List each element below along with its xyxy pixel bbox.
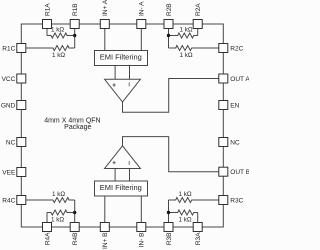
resistor R4b 1k (R4C to R4B node): [26, 198, 75, 203]
pin R4C: [17, 196, 26, 205]
pin R4B: [70, 223, 79, 232]
svg-text:R1A: R1A: [44, 3, 51, 16]
svg-text:IN- A: IN- A: [139, 1, 146, 16]
wire amp B - to EMI B: [129, 169, 131, 182]
svg-text:VCC: VCC: [2, 76, 16, 83]
svg-text:OUT B: OUT B: [230, 169, 249, 176]
svg-text:NC: NC: [6, 139, 16, 146]
svg-text:IN+ B: IN+ B: [102, 233, 109, 249]
wire EMI A to amp +: [114, 66, 116, 80]
svg-text:R3C: R3C: [230, 197, 243, 204]
plus sign amp A: [113, 83, 116, 86]
package outline: [21, 24, 223, 227]
minus sign amp B: [128, 161, 130, 165]
pin R3A: [193, 223, 202, 232]
svg-text:VEE: VEE: [2, 169, 16, 176]
resistor R2b 1k (R2C to R2B node): [169, 46, 219, 51]
op-amp B (triangle): [105, 146, 141, 169]
pin R2A: [193, 20, 202, 29]
svg-text:R2B: R2B: [166, 3, 173, 16]
wire R1B stub: [74, 29, 76, 49]
pin NC left: [17, 138, 26, 147]
svg-text:GND: GND: [1, 102, 16, 109]
wire R3B stub: [168, 200, 170, 223]
pin NC right: [219, 138, 228, 147]
pin OUT A: [219, 74, 228, 83]
resistor R3b 1k (R3C to R3B node): [169, 198, 219, 203]
svg-text:R3A: R3A: [195, 232, 202, 245]
svg-text:R1C: R1C: [2, 45, 15, 52]
EMI filter A box: [95, 51, 148, 66]
svg-text:R4B: R4B: [72, 233, 79, 246]
wire R1A stub: [46, 29, 48, 36]
resistor R2a 1k (R2A to R2B node): [169, 33, 198, 38]
resistor R3a 1k (R3A to R3B node): [169, 210, 198, 215]
pin R1A: [43, 20, 52, 29]
svg-text:EN: EN: [230, 102, 239, 109]
svg-text:R2C: R2C: [230, 45, 243, 52]
pin GND: [17, 101, 26, 110]
resistor R1a 1k (R1A to R1B node): [47, 33, 75, 38]
resistor R1b 1k (R1C to R1B node): [26, 46, 75, 51]
pin R2B: [164, 20, 173, 29]
node junction dot left-bottom: [73, 211, 76, 214]
pin R3B: [164, 223, 173, 232]
svg-text:1 kΩ: 1 kΩ: [52, 191, 65, 198]
svg-text:1 kΩ: 1 kΩ: [52, 52, 65, 59]
pin EN: [219, 101, 228, 110]
pin R1C: [17, 44, 26, 53]
svg-text:1 kΩ: 1 kΩ: [179, 27, 192, 34]
svg-text:1 kΩ: 1 kΩ: [51, 27, 64, 34]
wire R4B stub: [74, 200, 76, 223]
svg-text:NC: NC: [230, 139, 240, 146]
node junction dot right-top: [167, 34, 170, 37]
svg-text:EMI Filtering: EMI Filtering: [100, 183, 142, 192]
wire R3A stub: [197, 213, 199, 223]
wire IN+B to EMI filter B: [104, 196, 106, 223]
wire amp B + to EMI B: [114, 169, 116, 182]
svg-text:1 kΩ: 1 kΩ: [178, 191, 191, 198]
op-amp A (triangle): [105, 79, 141, 102]
wire IN-A to EMI filter A: [140, 29, 142, 51]
pin OUT B: [219, 167, 228, 176]
pin R1B: [70, 20, 79, 29]
pin R3C: [219, 196, 228, 205]
EMI filter B box: [95, 181, 148, 196]
pin R2C: [219, 44, 228, 53]
pin IN- B: [137, 223, 146, 232]
pin VCC: [17, 74, 26, 83]
pin R4A: [43, 223, 52, 232]
node junction dot left-top: [73, 34, 76, 37]
wire R2A stub: [197, 29, 199, 36]
node junction dot right-bottom: [167, 211, 170, 214]
svg-text:R4A: R4A: [44, 232, 51, 245]
svg-text:1 kΩ: 1 kΩ: [178, 217, 191, 224]
svg-text:1 kΩ: 1 kΩ: [179, 52, 192, 59]
pin VEE: [17, 168, 26, 177]
svg-text:R3B: R3B: [166, 233, 173, 246]
svg-text:IN+ A: IN+ A: [102, 0, 109, 16]
plus sign amp B: [113, 161, 116, 164]
svg-text:IN- B: IN- B: [139, 233, 146, 248]
pin IN- A: [137, 20, 146, 29]
svg-text:1 kΩ: 1 kΩ: [51, 217, 64, 224]
svg-text:OUT A: OUT A: [230, 76, 249, 83]
wire IN-B to EMI filter B: [140, 196, 142, 223]
svg-text:R1B: R1B: [72, 3, 79, 16]
svg-text:R2A: R2A: [195, 3, 202, 16]
resistor R4a 1k (R4A to R4B node): [47, 210, 75, 215]
svg-text:Package: Package: [64, 124, 91, 131]
pin IN+ B: [100, 223, 109, 232]
wire EMI A to amp -: [129, 66, 131, 80]
wire amp A output to OUT A: [123, 79, 219, 113]
wire amp B output to OUT B: [123, 137, 219, 172]
svg-text:R4C: R4C: [2, 197, 15, 204]
wire R2B stub: [168, 29, 170, 49]
wire R4A stub: [46, 213, 48, 223]
pin IN+ A: [100, 20, 109, 29]
wire IN+A to EMI filter A: [104, 29, 106, 51]
svg-text:EMI Filtering: EMI Filtering: [100, 52, 142, 61]
minus sign amp A: [128, 82, 130, 86]
